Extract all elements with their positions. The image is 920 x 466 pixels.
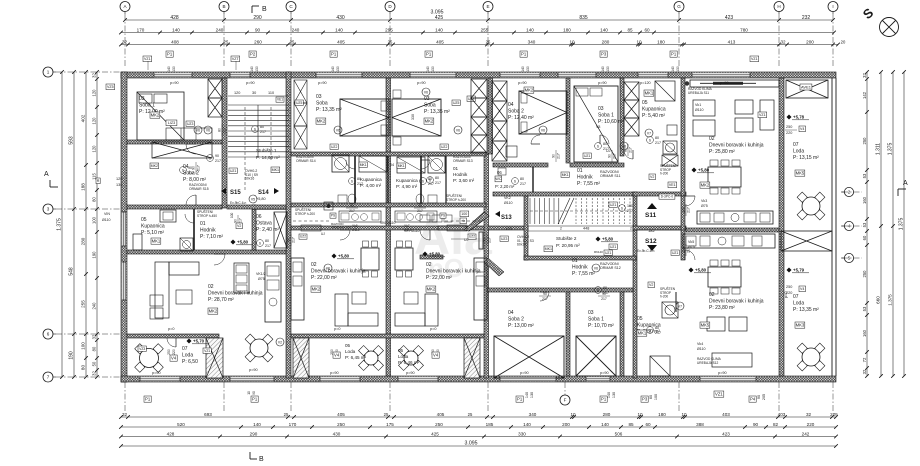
level mark C-D xyxy=(332,254,337,259)
svg-text:402: 402 xyxy=(81,114,86,122)
stair 1 top dims xyxy=(228,95,289,97)
svg-text:290: 290 xyxy=(250,431,258,436)
svg-text:140: 140 xyxy=(426,66,430,72)
svg-text:Ø110: Ø110 xyxy=(504,201,513,205)
mid units wall y203 xyxy=(291,203,486,207)
svg-text:P: 22,00 m²: P: 22,00 m² xyxy=(426,275,452,281)
svg-text:S: S xyxy=(422,179,424,183)
svg-text:Kupaonica: Kupaonica xyxy=(360,177,382,182)
svg-text:P: 4,90 m²: P: 4,90 m² xyxy=(396,184,418,189)
svg-text:Vk4: Vk4 xyxy=(697,342,703,346)
top dimension row 2 xyxy=(121,32,834,34)
svg-text:P: 25,80 m²: P: 25,80 m² xyxy=(709,149,735,155)
svg-text:Stubište 2: Stubište 2 xyxy=(556,236,577,241)
bottom bubble F xyxy=(560,395,570,405)
vestibule top wall xyxy=(633,192,686,196)
svg-text:P3: P3 xyxy=(601,52,607,57)
svg-text:32: 32 xyxy=(92,73,97,78)
svg-text:H: H xyxy=(777,4,780,9)
svg-text:82: 82 xyxy=(773,422,779,427)
svg-text:25: 25 xyxy=(468,412,473,417)
svg-text:MK2: MK2 xyxy=(425,119,434,124)
svg-text:S15: S15 xyxy=(230,190,241,196)
svg-text:90: 90 xyxy=(255,27,261,32)
svg-text:04: 04 xyxy=(508,102,514,108)
svg-text:S14: S14 xyxy=(258,190,269,196)
svg-text:V7: V7 xyxy=(678,305,682,309)
svg-text:R6140: R6140 xyxy=(594,250,603,254)
svg-text:217: 217 xyxy=(613,153,617,159)
svg-text:S12: S12 xyxy=(645,238,657,245)
svg-text:Kupaonica: Kupaonica xyxy=(141,223,165,229)
svg-text:428: 428 xyxy=(167,431,175,436)
svg-text:P: 2,20 m²: P: 2,20 m² xyxy=(495,184,515,189)
svg-text:250: 250 xyxy=(337,422,345,427)
svg-text:Hodnik: Hodnik xyxy=(453,172,468,177)
svg-text:142: 142 xyxy=(862,91,867,99)
svg-text:330: 330 xyxy=(411,114,415,120)
svg-text:S: S xyxy=(621,206,623,210)
level mark D-E xyxy=(423,252,428,257)
kitchen left unit vertical counter xyxy=(265,262,281,322)
svg-text:90: 90 xyxy=(757,395,761,399)
stair2 core walls xyxy=(524,196,528,260)
svg-text:190: 190 xyxy=(69,351,75,360)
svg-text:Soba 2: Soba 2 xyxy=(508,108,524,114)
svg-text:Ø75: Ø75 xyxy=(688,245,695,249)
svg-text:V4: V4 xyxy=(334,353,340,358)
svg-text:P: 6,46 m²: P: 6,46 m² xyxy=(398,360,420,365)
top dimension row 1 xyxy=(125,19,833,21)
svg-text:WC: WC xyxy=(495,177,502,181)
svg-text:VK2: VK2 xyxy=(504,196,511,200)
svg-text:100: 100 xyxy=(461,212,467,216)
svg-text:G: G xyxy=(677,4,681,9)
svg-text:05: 05 xyxy=(637,316,643,322)
svg-text:217: 217 xyxy=(601,297,607,301)
svg-text:140: 140 xyxy=(521,66,525,72)
boxed V2/V4 labels interior xyxy=(236,223,243,229)
svg-text:p=90: p=90 xyxy=(520,371,529,375)
svg-text:90: 90 xyxy=(234,219,238,223)
vestibule walls S11/S12 xyxy=(633,226,686,230)
svg-text:04: 04 xyxy=(390,163,394,167)
svg-text:02: 02 xyxy=(208,284,214,290)
svg-text:255: 255 xyxy=(81,300,86,308)
svg-text:ORMAR S14: ORMAR S14 xyxy=(296,159,316,163)
svg-text:P: 7,55 m²: P: 7,55 m² xyxy=(572,271,595,277)
svg-text:10: 10 xyxy=(637,412,643,417)
svg-text:P1: P1 xyxy=(167,52,173,57)
svg-text:53: 53 xyxy=(862,173,867,178)
svg-text:90: 90 xyxy=(350,204,354,208)
svg-text:140: 140 xyxy=(607,392,611,398)
door living left xyxy=(214,254,225,265)
svg-text:Ev-9b-C-6-n: Ev-9b-C-6-n xyxy=(637,249,655,253)
right loggia crossed beam top AVE1 xyxy=(786,80,828,98)
bed E-G upper soba1 xyxy=(574,86,618,162)
svg-text:02: 02 xyxy=(426,262,432,268)
svg-text:110: 110 xyxy=(268,91,274,95)
svg-text:P: 23,80 m²: P: 23,80 m² xyxy=(709,305,735,311)
svg-text:25: 25 xyxy=(290,39,295,44)
top edge boxed labels xyxy=(166,51,173,57)
svg-text:160: 160 xyxy=(862,329,867,337)
svg-text:2: 2 xyxy=(560,227,562,231)
grid dashed lines vertical xyxy=(124,14,126,68)
svg-text:MK2: MK2 xyxy=(701,183,710,188)
misc labels right xyxy=(668,182,677,188)
svg-text:408: 408 xyxy=(171,39,179,44)
bed unit D-E xyxy=(392,99,441,136)
svg-text:32: 32 xyxy=(806,412,812,417)
svg-text:330: 330 xyxy=(518,431,526,436)
svg-text:593: 593 xyxy=(69,136,75,145)
svg-text:32: 32 xyxy=(122,39,128,44)
level mark left unit xyxy=(231,240,236,245)
svg-text:25: 25 xyxy=(384,412,389,417)
svg-text:P: 13,15 m²: P: 13,15 m² xyxy=(793,155,819,161)
svg-text:P: 2,40 m²: P: 2,40 m² xyxy=(256,227,279,233)
svg-text:80: 80 xyxy=(655,136,659,140)
svg-text:P: 10,70 m²: P: 10,70 m² xyxy=(588,323,614,329)
building outer bottom wall xyxy=(121,376,836,382)
svg-text:V6: V6 xyxy=(336,129,340,133)
left dimension col 4 xyxy=(96,72,98,377)
svg-text:140: 140 xyxy=(523,422,531,427)
bottom dimension row 1 xyxy=(121,416,836,418)
svg-text:05: 05 xyxy=(141,217,147,223)
svg-text:p=90: p=90 xyxy=(170,81,179,85)
svg-text:V6: V6 xyxy=(424,91,428,95)
entrance S13 xyxy=(495,211,500,217)
building outer left wall xyxy=(121,72,127,382)
dining table left unit xyxy=(250,339,268,357)
door S11 living xyxy=(685,196,695,206)
door soba1 left xyxy=(186,144,196,154)
svg-text:175: 175 xyxy=(386,422,394,427)
left bubbles xyxy=(43,67,53,77)
svg-text:Hodnik: Hodnik xyxy=(572,264,588,270)
level mark loggia left xyxy=(187,339,192,344)
svg-text:140: 140 xyxy=(167,66,171,72)
svg-text:80: 80 xyxy=(260,125,264,129)
left dimension col 3 xyxy=(85,72,87,377)
svg-text:Ø110: Ø110 xyxy=(352,228,360,232)
svg-text:100: 100 xyxy=(81,342,86,350)
svg-text:02: 02 xyxy=(709,136,715,142)
svg-text:p=90: p=90 xyxy=(249,368,258,372)
svg-text:Ø75: Ø75 xyxy=(701,204,708,208)
svg-text:180: 180 xyxy=(657,39,665,44)
svg-text:Ø110: Ø110 xyxy=(697,347,706,351)
svg-text:S11: S11 xyxy=(645,212,657,219)
corridor SW chamfer wall xyxy=(438,226,466,230)
stair 2 landing line xyxy=(528,225,634,227)
svg-text:06: 06 xyxy=(256,214,262,220)
shower left unit xyxy=(180,238,193,251)
svg-text:+5,79: +5,79 xyxy=(793,268,805,273)
svg-text:06: 06 xyxy=(497,170,502,175)
left dimension col outer xyxy=(61,72,63,377)
svg-text:05: 05 xyxy=(642,100,648,106)
svg-text:6: 6 xyxy=(47,332,50,337)
svg-text:STROP h-450: STROP h-450 xyxy=(197,214,217,218)
svg-text:182: 182 xyxy=(648,228,655,233)
svg-text:+5,80: +5,80 xyxy=(256,197,266,201)
svg-text:P: 6,45 m²: P: 6,45 m² xyxy=(345,355,367,360)
svg-text:7: 7 xyxy=(47,375,50,380)
svg-text:AVE1: AVE1 xyxy=(801,84,812,89)
svg-text:P1: P1 xyxy=(517,397,523,402)
svg-text:MK1: MK1 xyxy=(398,164,405,168)
svg-text:217: 217 xyxy=(260,130,266,134)
svg-text:P: 13,35 m²: P: 13,35 m² xyxy=(793,307,819,313)
svg-text:280: 280 xyxy=(81,237,86,245)
svg-text:Soba 1: Soba 1 xyxy=(588,316,604,322)
wall stair1 east / C xyxy=(286,72,291,378)
corridor fixtures row xyxy=(339,211,381,222)
svg-text:ORMAR S13: ORMAR S13 xyxy=(453,159,473,163)
washer S12 xyxy=(662,302,678,318)
svg-text:Loda: Loda xyxy=(793,148,804,154)
right dimension col 2 xyxy=(880,72,882,376)
svg-text:Soba: Soba xyxy=(316,100,328,106)
svg-text:V4: V4 xyxy=(433,353,439,358)
svg-text:V6: V6 xyxy=(594,267,598,271)
svg-text:P: 22,00 m²: P: 22,00 m² xyxy=(311,275,337,281)
svg-text:53: 53 xyxy=(862,306,867,311)
svg-text:232: 232 xyxy=(802,15,811,21)
svg-text:10: 10 xyxy=(636,39,642,44)
svg-text:+5,80: +5,80 xyxy=(602,237,614,242)
svg-text:V6: V6 xyxy=(456,129,460,133)
svg-text:P: 13,35 m²: P: 13,35 m² xyxy=(424,109,450,115)
svg-text:Soba 1: Soba 1 xyxy=(139,102,155,108)
svg-text:32: 32 xyxy=(862,73,867,78)
svg-text:V6: V6 xyxy=(326,267,330,271)
svg-text:+5,78: +5,78 xyxy=(793,115,805,120)
loggia top wall mid units xyxy=(291,334,484,338)
svg-text:217: 217 xyxy=(542,297,548,301)
sofa left unit xyxy=(155,262,169,318)
wardrobe S11 kupaonica wall xyxy=(624,82,639,100)
kitchen left unit tall cabinet xyxy=(234,263,249,293)
svg-text:90: 90 xyxy=(192,166,196,170)
svg-text:10: 10 xyxy=(569,39,575,44)
svg-text:V2: V2 xyxy=(649,283,653,287)
svg-text:80: 80 xyxy=(603,142,607,146)
svg-text:V6: V6 xyxy=(206,129,210,133)
sofa D-E xyxy=(425,294,438,326)
svg-text:180: 180 xyxy=(658,412,666,417)
svg-text:32: 32 xyxy=(122,412,128,417)
svg-text:340: 340 xyxy=(528,39,536,44)
svg-text:Ø75: Ø75 xyxy=(258,277,265,281)
svg-text:1.375: 1.375 xyxy=(899,218,905,231)
mid units bath partitions xyxy=(354,156,356,203)
svg-text:MK2: MK2 xyxy=(312,287,321,292)
svg-text:506: 506 xyxy=(615,431,623,436)
bed soba1 left unit xyxy=(137,92,184,140)
svg-text:220: 220 xyxy=(807,422,815,427)
svg-text:170: 170 xyxy=(137,27,145,32)
crossed box S11 bath xyxy=(662,155,678,166)
wc E-G WC room xyxy=(498,168,506,175)
svg-text:P: 3,60 m²: P: 3,60 m² xyxy=(453,178,475,183)
right dimension col inner xyxy=(866,72,868,376)
svg-text:MK1: MK1 xyxy=(645,91,654,96)
svg-text:25: 25 xyxy=(284,412,289,417)
svg-text:B: B xyxy=(259,456,264,463)
svg-text:p=0: p=0 xyxy=(334,327,340,331)
wall grid D vertical xyxy=(386,78,391,376)
svg-text:80: 80 xyxy=(655,326,659,330)
svg-text:p=0: p=0 xyxy=(168,327,174,331)
svg-text:p=90: p=90 xyxy=(318,81,327,85)
bed E-G lower soba2 xyxy=(494,336,564,378)
svg-text:p=90: p=90 xyxy=(598,81,607,85)
svg-text:217: 217 xyxy=(349,209,355,213)
misc boxed labels left xyxy=(106,84,115,90)
svg-text:85: 85 xyxy=(627,27,633,32)
svg-text:140: 140 xyxy=(526,27,534,32)
svg-text:R: R xyxy=(97,179,100,183)
wall grid H vertical xyxy=(779,78,784,376)
svg-text:660: 660 xyxy=(876,296,881,304)
door D-E bath xyxy=(421,160,430,169)
svg-text:UZ5: UZ5 xyxy=(453,101,460,105)
svg-text:120: 120 xyxy=(92,145,97,153)
svg-text:175: 175 xyxy=(505,226,512,231)
svg-text:120: 120 xyxy=(234,91,240,95)
svg-text:h-200: h-200 xyxy=(660,172,668,176)
svg-text:ORMAR S11: ORMAR S11 xyxy=(600,174,621,178)
bed E-G lower soba1 xyxy=(576,336,616,376)
svg-text:250: 250 xyxy=(167,349,171,355)
E-G upper unit: soba1/kupaonica wall xyxy=(620,78,624,156)
svg-text:180: 180 xyxy=(563,27,571,32)
svg-text:32: 32 xyxy=(862,369,867,374)
svg-text:72: 72 xyxy=(862,357,867,362)
svg-text:VZ1: VZ1 xyxy=(759,113,766,117)
svg-text:Loda: Loda xyxy=(182,352,193,358)
svg-text:60x16: 60x16 xyxy=(517,243,526,247)
svg-text:P: 13,35 m²: P: 13,35 m² xyxy=(316,107,342,113)
svg-text:01: 01 xyxy=(572,258,578,264)
svg-text:1.375: 1.375 xyxy=(57,218,63,231)
svg-text:A: A xyxy=(44,171,49,178)
svg-text:P1: P1 xyxy=(145,397,151,402)
svg-text:90: 90 xyxy=(188,166,192,170)
svg-text:60x16: 60x16 xyxy=(245,177,254,181)
svg-text:217: 217 xyxy=(215,159,221,163)
svg-text:p=90: p=90 xyxy=(152,371,161,375)
svg-text:UZ1: UZ1 xyxy=(672,251,679,255)
wardrobe left unit at B wall xyxy=(208,79,222,98)
svg-text:Dnevni boravak i kuhinja: Dnevni boravak i kuhinja xyxy=(208,290,263,296)
svg-text:405: 405 xyxy=(436,39,444,44)
svg-text:V2: V2 xyxy=(278,341,282,345)
svg-text:V6: V6 xyxy=(196,129,200,133)
svg-text:04: 04 xyxy=(508,310,514,316)
D-E corner dashed xyxy=(445,220,480,222)
svg-text:V7: V7 xyxy=(647,132,651,136)
level mark S11 living xyxy=(692,168,697,173)
svg-text:140: 140 xyxy=(525,392,529,398)
svg-text:01: 01 xyxy=(200,221,206,227)
door S11 soba2 xyxy=(531,135,540,144)
svg-text:P: 10,60 m²: P: 10,60 m² xyxy=(598,119,624,125)
svg-text:Dnevni boravak i kuhinja: Dnevni boravak i kuhinja xyxy=(709,142,764,148)
svg-text:MK3: MK3 xyxy=(796,323,805,328)
level mark S12 living xyxy=(689,268,694,273)
loggia piers mid units xyxy=(293,338,309,378)
svg-text:VZ1: VZ1 xyxy=(204,349,210,353)
svg-text:190: 190 xyxy=(92,251,97,259)
svg-text:p=90: p=90 xyxy=(518,81,527,85)
svg-text:10: 10 xyxy=(681,412,687,417)
svg-text:32: 32 xyxy=(780,39,786,44)
E-G lower unit hodnik floor wall y288 xyxy=(488,288,633,292)
svg-text:P3: P3 xyxy=(642,397,648,402)
svg-text:120: 120 xyxy=(116,177,122,181)
svg-text:UZ2: UZ2 xyxy=(331,145,338,149)
svg-text:90: 90 xyxy=(252,391,256,395)
svg-text:693: 693 xyxy=(204,412,212,417)
svg-text:S: S xyxy=(254,127,256,131)
svg-text:217: 217 xyxy=(655,141,661,145)
svg-text:100: 100 xyxy=(92,216,97,224)
svg-text:217: 217 xyxy=(687,207,691,213)
svg-text:425: 425 xyxy=(431,431,439,436)
svg-text:80: 80 xyxy=(265,239,269,243)
svg-text:10: 10 xyxy=(570,412,576,417)
svg-text:217: 217 xyxy=(357,182,363,186)
left unit: kupaonica/hodnik partition xyxy=(193,209,195,250)
svg-text:217: 217 xyxy=(197,165,201,171)
svg-text:P1: P1 xyxy=(331,52,337,57)
svg-text:217: 217 xyxy=(655,331,661,335)
washer S11 xyxy=(663,141,677,154)
loggia table right upper xyxy=(802,197,820,215)
svg-text:UREĐAJA S12: UREĐAJA S12 xyxy=(697,361,718,365)
E-G upper unit: room south walls y163 xyxy=(493,163,548,167)
svg-text:25: 25 xyxy=(486,39,491,44)
svg-text:Ostava: Ostava xyxy=(256,220,272,226)
svg-text:P: 12,40 m²: P: 12,40 m² xyxy=(508,115,534,121)
svg-text:32: 32 xyxy=(92,334,97,339)
svg-text:80: 80 xyxy=(435,176,439,180)
kitchen C-D counter xyxy=(291,258,304,320)
svg-text:Loda: Loda xyxy=(793,300,804,306)
svg-text:242: 242 xyxy=(802,431,810,436)
svg-text:200: 200 xyxy=(806,39,814,44)
svg-text:185: 185 xyxy=(486,422,494,427)
right loggia crossed beam middle xyxy=(781,231,832,251)
svg-text:217: 217 xyxy=(629,147,633,153)
svg-text:220: 220 xyxy=(786,291,792,295)
svg-text:1.375: 1.375 xyxy=(888,143,894,156)
svg-text:UJ: UJ xyxy=(321,232,325,236)
stair 2 break cut xyxy=(558,198,570,224)
svg-text:Kupaonica: Kupaonica xyxy=(396,178,418,183)
svg-text:140: 140 xyxy=(253,422,261,427)
loggia table right lower xyxy=(802,348,820,366)
svg-text:140: 140 xyxy=(435,27,443,32)
svg-text:140: 140 xyxy=(601,422,609,427)
svg-text:130: 130 xyxy=(255,66,259,72)
